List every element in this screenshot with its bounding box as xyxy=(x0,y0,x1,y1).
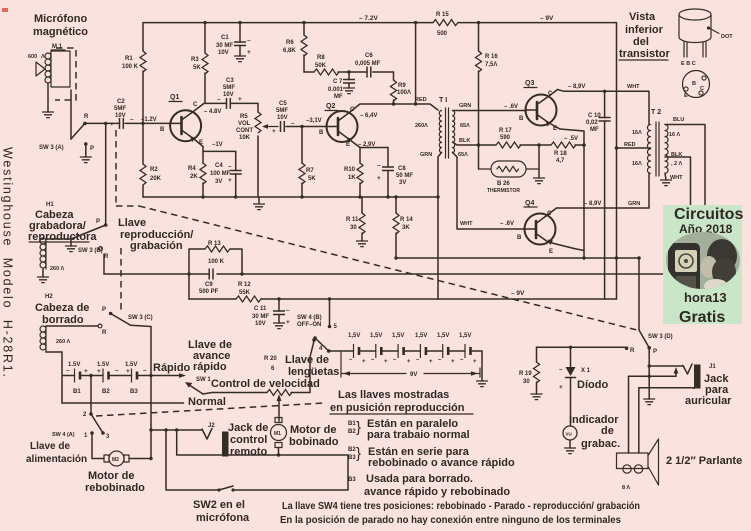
svg-text:260 Λ: 260 Λ xyxy=(56,339,71,345)
svg-text:control: control xyxy=(230,434,267,446)
svg-text:– 9V: – 9V xyxy=(511,290,525,297)
T2 core xyxy=(656,122,659,176)
svg-text:–: – xyxy=(291,120,295,127)
svg-text:– 7.2V: – 7.2V xyxy=(359,15,378,22)
svg-text:10V: 10V xyxy=(277,115,288,121)
switch SW3(A) xyxy=(71,123,85,139)
svg-text:P: P xyxy=(102,307,106,313)
svg-text:C2: C2 xyxy=(117,99,125,105)
svg-text:hora13: hora13 xyxy=(684,290,727,305)
svg-text:100Λ: 100Λ xyxy=(397,90,411,96)
svg-text:10V: 10V xyxy=(218,50,229,56)
capacitor C4 xyxy=(235,151,237,197)
svg-text:+: + xyxy=(407,359,411,365)
svg-text:1,5V: 1,5V xyxy=(415,333,427,339)
svg-text:1K: 1K xyxy=(348,175,356,181)
svg-text:5MF: 5MF xyxy=(114,106,126,112)
jack J1 tip contact xyxy=(683,364,692,374)
svg-text:30: 30 xyxy=(350,225,357,231)
svg-text:R 19: R 19 xyxy=(519,371,532,377)
svg-text:R10: R10 xyxy=(344,167,356,173)
wire Q3 emitter xyxy=(560,129,584,258)
wire Q1 collector node xyxy=(205,102,226,104)
svg-text:0.001: 0.001 xyxy=(328,87,344,93)
svg-text:del: del xyxy=(633,36,649,48)
resistor R15 xyxy=(433,20,458,26)
svg-text:B1: B1 xyxy=(73,389,81,395)
wire Q4 emitter to rail xyxy=(574,249,584,251)
svg-text:30 MF: 30 MF xyxy=(216,43,233,49)
ground under SW3(A) xyxy=(80,157,92,163)
wire thermistor right to ground xyxy=(538,145,540,178)
svg-text:– .6V: – .6V xyxy=(504,104,518,110)
ground stub near H1 xyxy=(70,239,72,246)
svg-text:Llave: Llave xyxy=(118,217,146,229)
svg-text:R7: R7 xyxy=(306,168,314,174)
svg-text:Control de velocidad: Control de velocidad xyxy=(211,378,320,390)
svg-text:1,5V: 1,5V xyxy=(437,333,449,339)
svg-text:–: – xyxy=(130,116,134,123)
svg-text:R9: R9 xyxy=(398,83,406,89)
svg-text:+: + xyxy=(238,96,242,103)
svg-text:+: + xyxy=(228,177,232,184)
jack J2 tip contact xyxy=(202,429,212,440)
motor M2 xyxy=(104,451,129,466)
svg-text:Q4: Q4 xyxy=(525,200,534,207)
svg-text:P: P xyxy=(90,146,94,152)
svg-text:P: P xyxy=(96,219,100,225)
svg-text:grabación: grabación xyxy=(130,240,183,252)
svg-text:H1: H1 xyxy=(46,202,54,208)
svg-text:1.5V: 1.5V xyxy=(68,362,80,368)
svg-text:260Λ: 260Λ xyxy=(415,123,428,129)
capacitor C10 xyxy=(604,91,606,117)
svg-text:1,5V: 1,5V xyxy=(370,333,382,339)
ground under C7 xyxy=(343,88,355,94)
wire jack sleeve to speaker xyxy=(629,376,695,453)
svg-text:R: R xyxy=(102,330,107,336)
main line y274 xyxy=(104,273,705,275)
svg-text:rápido: rápido xyxy=(193,361,227,373)
Rapido contact arrow xyxy=(179,373,186,378)
wire P contact to ground xyxy=(85,144,87,157)
svg-text:magnético: magnético xyxy=(33,26,88,38)
thermistor B26 xyxy=(479,161,540,177)
svg-text:260 Λ: 260 Λ xyxy=(50,266,65,272)
svg-text:bobinado: bobinado xyxy=(289,436,339,448)
resistor R8 xyxy=(314,69,339,75)
switch SW3(B) xyxy=(71,225,106,239)
svg-text:600: 600 xyxy=(28,54,37,60)
svg-text:T I: T I xyxy=(439,97,447,104)
wire T1 primary bottom to -9V rail xyxy=(438,152,442,299)
svg-text:OFF–ON: OFF–ON xyxy=(297,322,321,328)
lengüetas switch xyxy=(310,341,314,393)
svg-text:– 6,4V: – 6,4V xyxy=(360,113,377,119)
dashed enclosure of mic xyxy=(55,48,76,100)
wire J2 sleeve loop xyxy=(166,430,348,490)
svg-text:0,005 MF: 0,005 MF xyxy=(355,61,381,67)
svg-text:R 20: R 20 xyxy=(264,356,277,362)
svg-text:50K: 50K xyxy=(315,63,327,69)
node base Q1 junction xyxy=(141,122,144,125)
svg-text:Díodo: Díodo xyxy=(577,379,608,391)
svg-text:– 4.8V: – 4.8V xyxy=(204,109,221,115)
wire to jack tip xyxy=(649,365,683,367)
svg-text:para trabaio normal: para trabaio normal xyxy=(367,429,470,441)
svg-text:inferior: inferior xyxy=(625,24,664,36)
svg-text:La llave SW4 tiene tres posici: La llave SW4 tiene tres posiciones: rebo… xyxy=(282,501,640,512)
svg-text:H2: H2 xyxy=(45,294,53,300)
transistor can 3D xyxy=(679,9,711,57)
svg-text:borrado: borrado xyxy=(42,314,84,326)
svg-text:C: C xyxy=(193,102,198,108)
svg-text:lengüetas: lengüetas xyxy=(288,366,339,378)
svg-text:1,5V: 1,5V xyxy=(459,333,471,339)
svg-text:+: + xyxy=(272,128,276,135)
svg-text:20K: 20K xyxy=(150,176,162,182)
svg-text:WHT: WHT xyxy=(460,221,473,227)
svg-text:100 K: 100 K xyxy=(208,259,225,265)
wire T2 secondary center tap BLK xyxy=(665,157,691,274)
svg-text:M1: M1 xyxy=(274,431,281,437)
svg-text:–: – xyxy=(66,367,70,374)
wire battery right to ground xyxy=(481,351,483,381)
jack J1 body xyxy=(694,365,701,389)
wire T1 secondary top to Q3 base xyxy=(453,110,527,112)
wiper arrow R5 xyxy=(266,126,278,128)
svg-text:SW 3 (B): SW 3 (B) xyxy=(78,248,103,254)
stamp background xyxy=(663,205,742,324)
svg-text:J2: J2 xyxy=(208,423,215,429)
wire H1 bottom to ground xyxy=(42,269,44,277)
battery row 6 cells xyxy=(329,350,482,352)
svg-text:30 MF: 30 MF xyxy=(252,314,269,320)
ground under R11 xyxy=(356,241,368,247)
svg-text:X 1: X 1 xyxy=(581,368,591,374)
resistor R10 xyxy=(359,148,361,198)
svg-text:500: 500 xyxy=(437,31,448,37)
wire T1 secondary center tap xyxy=(453,142,497,145)
svg-text:}: } xyxy=(356,445,361,462)
svg-text:Jack de: Jack de xyxy=(228,422,268,434)
T1 primary winding xyxy=(439,111,441,153)
jack J1 NC contact arrow xyxy=(629,371,677,376)
wire H2 bottom xyxy=(46,351,62,353)
svg-text:3K: 3K xyxy=(402,225,410,231)
svg-text:BLU: BLU xyxy=(673,117,684,123)
svg-text:– 8,9V: – 8,9V xyxy=(568,84,585,90)
svg-text:C6: C6 xyxy=(365,53,373,59)
svg-text:MF: MF xyxy=(590,127,599,133)
wire feedback line xyxy=(304,71,314,73)
svg-text:rebobinado o avance rápido: rebobinado o avance rápido xyxy=(368,457,515,469)
svg-text:B2: B2 xyxy=(102,389,110,395)
T1 secondary winding xyxy=(453,111,455,153)
resistor R1 xyxy=(142,23,144,124)
bottom wire of battery pack xyxy=(62,402,184,404)
wire Q4 collector GRN to T2 xyxy=(557,174,650,209)
svg-text:–3,1V: –3,1V xyxy=(306,118,322,124)
svg-text:–: – xyxy=(217,96,221,103)
svg-text:GRN: GRN xyxy=(628,201,640,207)
resistor R9 xyxy=(393,72,395,104)
svg-text:C: C xyxy=(350,107,355,113)
svg-text:16Λ: 16Λ xyxy=(632,161,642,167)
svg-text:R8: R8 xyxy=(317,55,325,61)
svg-text:C3: C3 xyxy=(226,78,234,84)
diode X1 xyxy=(570,347,572,367)
svg-text:R 12: R 12 xyxy=(238,282,251,288)
svg-text:WHT: WHT xyxy=(670,175,683,181)
capacitor C3 xyxy=(227,98,231,109)
svg-text:SW2 en el: SW2 en el xyxy=(193,499,245,511)
svg-text:+: + xyxy=(362,359,366,365)
svg-text:MF: MF xyxy=(334,94,343,100)
svg-text:R: R xyxy=(630,348,635,354)
svg-text:3V: 3V xyxy=(399,180,406,186)
svg-text:B: B xyxy=(519,116,524,122)
DOT mark xyxy=(707,26,710,29)
resistor R2 xyxy=(142,123,144,197)
svg-text:R 17: R 17 xyxy=(499,128,512,134)
svg-text:SW 1: SW 1 xyxy=(196,377,211,383)
capacitor C8 xyxy=(387,148,389,198)
emitter return rail xyxy=(396,257,639,259)
VU indicator xyxy=(563,426,577,440)
svg-text:1,5V: 1,5V xyxy=(392,333,404,339)
svg-text:+: + xyxy=(384,359,388,365)
svg-text:DOT: DOT xyxy=(721,34,733,40)
svg-text:RED: RED xyxy=(624,142,636,148)
svg-text:Motor de: Motor de xyxy=(290,424,336,436)
capacitor C7 xyxy=(347,70,350,73)
svg-text:R 11: R 11 xyxy=(346,217,359,223)
transistor bottom view circle xyxy=(683,71,710,98)
svg-text:1,5V: 1,5V xyxy=(348,333,360,339)
svg-text:50 MF: 50 MF xyxy=(396,173,413,179)
capacitor C1 xyxy=(239,23,241,56)
capacitor C9 xyxy=(209,269,213,280)
svg-text:Cabeza de: Cabeza de xyxy=(35,302,89,314)
svg-text:– 8,9V: – 8,9V xyxy=(584,201,601,207)
T2 secondary winding xyxy=(665,125,668,174)
svg-text:en pusición reproducción: en pusición reproducción xyxy=(330,402,465,414)
svg-text:R 15: R 15 xyxy=(436,12,449,18)
svg-text:R: R xyxy=(84,114,89,120)
wire -7.2V / -9V top rail xyxy=(143,22,617,24)
svg-text:C: C xyxy=(548,91,553,97)
svg-text:T 2: T 2 xyxy=(651,109,661,116)
svg-text:R5: R5 xyxy=(240,114,248,120)
wire M2 to vertical xyxy=(129,458,151,460)
wire T2 primary center tap RED xyxy=(617,147,651,149)
wire H2 top xyxy=(46,325,98,327)
resistor R14 xyxy=(395,197,397,258)
svg-text:B: B xyxy=(160,127,165,133)
switch SW3(D) xyxy=(639,258,649,348)
red registration dash top-left xyxy=(2,8,8,12)
svg-text:Usada para borrado.: Usada para borrado. xyxy=(366,473,473,485)
svg-text:Λ: Λ xyxy=(41,54,45,60)
svg-text:Micrófono: Micrófono xyxy=(34,13,87,25)
wire Q3 collector WHT to T2 xyxy=(558,90,650,125)
dashed diagonal linkage to SW3(D) xyxy=(139,206,637,330)
svg-text:E: E xyxy=(553,126,557,132)
svg-text:65Λ: 65Λ xyxy=(458,152,468,158)
svg-text:B3: B3 xyxy=(130,389,138,395)
svg-text:Circuitos: Circuitos xyxy=(674,206,743,223)
wire M1 bottom xyxy=(278,448,280,456)
svg-text:}: } xyxy=(356,419,361,436)
jack J2 body xyxy=(222,432,229,457)
svg-text:+: + xyxy=(126,368,130,375)
ground under mic xyxy=(42,112,54,118)
wire H1 top xyxy=(46,238,71,240)
svg-text:10V: 10V xyxy=(255,321,266,327)
svg-text:5K: 5K xyxy=(193,65,201,71)
wire R contact down to line xyxy=(103,254,105,274)
ground under C1 xyxy=(234,56,246,62)
svg-text:4,7: 4,7 xyxy=(556,158,565,164)
svg-text:remoto: remoto xyxy=(230,446,268,458)
svg-text:THERMISTOR: THERMISTOR xyxy=(487,188,520,194)
svg-text:R 18: R 18 xyxy=(554,151,567,157)
svg-text:BLK: BLK xyxy=(459,138,470,144)
svg-text:C8: C8 xyxy=(398,166,406,172)
-9V line y299 xyxy=(189,298,617,300)
svg-text:M 1: M 1 xyxy=(52,44,63,50)
wire T1 secondary bottom to Q4 base xyxy=(453,152,526,229)
switch SW2 blade xyxy=(219,486,233,490)
svg-text:5MF: 5MF xyxy=(276,108,288,114)
svg-text:R4: R4 xyxy=(188,166,196,172)
T1 core xyxy=(446,108,449,158)
svg-text:R 16: R 16 xyxy=(485,54,498,60)
svg-text:Llave de: Llave de xyxy=(285,354,329,366)
wire SW1 to R20 xyxy=(203,393,267,395)
svg-text:8 Λ: 8 Λ xyxy=(622,485,630,491)
svg-text:grabac.: grabac. xyxy=(581,438,620,450)
svg-text:5MF: 5MF xyxy=(223,85,235,91)
wire P contact down xyxy=(648,348,650,399)
svg-text:J1: J1 xyxy=(709,364,716,370)
svg-text:auricular: auricular xyxy=(685,395,732,407)
svg-text:Q3: Q3 xyxy=(525,80,534,87)
svg-text:+: + xyxy=(451,359,455,365)
svg-text:E: E xyxy=(684,93,688,99)
svg-text:E: E xyxy=(549,249,553,255)
svg-text:micrófona: micrófona xyxy=(196,512,250,524)
svg-text:E B C: E B C xyxy=(681,61,696,67)
svg-text:C4: C4 xyxy=(215,163,223,169)
svg-text:SW 4 (B): SW 4 (B) xyxy=(297,315,322,321)
svg-text:avance rápido y rebobinado: avance rápido y rebobinado xyxy=(364,486,510,498)
svg-text:–1V: –1V xyxy=(212,142,223,148)
svg-text:Gratis: Gratis xyxy=(679,309,725,326)
svg-text:C: C xyxy=(547,211,552,217)
svg-text:E: E xyxy=(346,142,350,148)
switch SW4(A) xyxy=(89,412,93,416)
svg-text:alimentación: alimentación xyxy=(26,454,87,465)
svg-text:B: B xyxy=(517,235,522,241)
svg-text:de: de xyxy=(601,425,614,437)
motor M1 xyxy=(271,418,287,448)
wire mic to ground xyxy=(47,83,49,112)
battery pack B1 B2 B3 xyxy=(62,352,181,403)
switch SW1 blade xyxy=(187,384,203,395)
svg-text:55K: 55K xyxy=(239,290,251,296)
svg-text:100 K: 100 K xyxy=(122,64,139,70)
svg-text:VU: VU xyxy=(566,432,572,437)
svg-text:SW 3 (A): SW 3 (A) xyxy=(39,145,64,151)
resistor R19 xyxy=(536,347,538,394)
svg-text:Motor de: Motor de xyxy=(88,470,134,482)
svg-text:R 13: R 13 xyxy=(208,241,221,247)
ground rail of stage xyxy=(143,196,438,198)
svg-text:E: E xyxy=(199,140,203,146)
wire Q1 base xyxy=(85,122,120,124)
svg-text:–: – xyxy=(228,163,232,170)
svg-text:R2: R2 xyxy=(150,167,158,173)
svg-text:SW 4 (A): SW 4 (A) xyxy=(52,432,75,438)
long vertical from SW3(C) xyxy=(150,327,152,459)
svg-text:0,02: 0,02 xyxy=(586,120,598,126)
head H2 xyxy=(40,326,46,352)
svg-text:6,8K: 6,8K xyxy=(283,48,296,54)
capacitor C2 xyxy=(120,118,124,129)
transistor Q1 xyxy=(170,103,204,146)
resistor R17 xyxy=(496,142,521,148)
svg-text:R3: R3 xyxy=(191,57,199,63)
svg-text:+: + xyxy=(84,368,88,375)
dashed linkage SW3 A-B xyxy=(116,130,139,206)
svg-text:BLK: BLK xyxy=(671,152,682,158)
svg-text:GRN: GRN xyxy=(420,152,432,158)
svg-text:M2: M2 xyxy=(112,457,119,463)
wire Q2 emitter xyxy=(360,147,388,149)
resistor R3 xyxy=(204,23,206,104)
dashed linkage SW3 B-C xyxy=(120,248,122,313)
wire R contact line xyxy=(537,346,626,348)
svg-text:R 14: R 14 xyxy=(400,217,413,223)
resistor R12 xyxy=(236,296,261,302)
resistor R4 xyxy=(202,151,204,197)
svg-text:–: – xyxy=(377,162,381,169)
svg-text:10K: 10K xyxy=(239,135,251,141)
svg-text:rebobinado: rebobinado xyxy=(85,482,145,494)
svg-text:+: + xyxy=(97,368,101,375)
svg-text:–: – xyxy=(115,367,119,374)
svg-text:– .5V: – .5V xyxy=(564,136,578,142)
svg-text:65Λ: 65Λ xyxy=(460,123,470,129)
svg-text:– .6V: – .6V xyxy=(500,221,514,227)
svg-text:–: – xyxy=(286,307,290,314)
capacitor C6 xyxy=(367,67,371,78)
svg-text:B3: B3 xyxy=(348,477,356,483)
wire mic hot lead xyxy=(70,90,72,139)
svg-text:16Λ: 16Λ xyxy=(632,130,642,136)
svg-text:Q1: Q1 xyxy=(170,94,179,101)
wire down to SW3(B) xyxy=(105,123,107,225)
wire T2 secondary bottom WHT to ground xyxy=(665,173,666,180)
resistor R16 xyxy=(478,23,480,169)
svg-text:–1.2V: –1.2V xyxy=(141,117,157,123)
resistor R20 xyxy=(267,390,292,396)
transistor Q2 xyxy=(327,104,361,148)
svg-text:C 7: C 7 xyxy=(333,79,343,85)
svg-text:, 2 Λ: , 2 Λ xyxy=(671,161,682,167)
